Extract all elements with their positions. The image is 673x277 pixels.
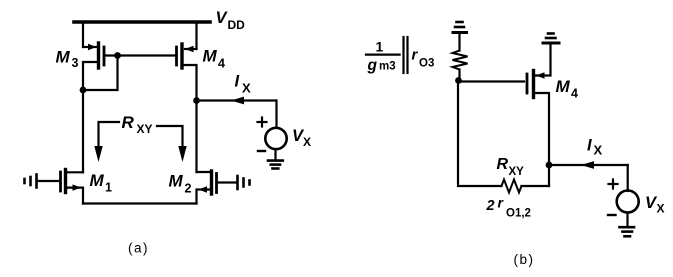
transistor M1 (61, 170, 82, 193)
wire VX top (a) (275, 101, 277, 129)
wire node X down to M2 drain (195, 101, 197, 173)
minus sign (b) (608, 214, 616, 216)
wire M4 drain down (b) (534, 93, 550, 186)
wire resistor to gate node (b) (458, 70, 460, 81)
node M3 drain junction (80, 87, 87, 94)
arrow RXY right (157, 126, 187, 162)
label M4 (203, 47, 226, 71)
resistor RXY (b) (502, 180, 522, 193)
svg-text:I: I (235, 73, 240, 91)
wire M3 gate to M4 gate (105, 54, 176, 56)
wire M4 drain (182, 65, 197, 101)
svg-text:XY: XY (137, 122, 153, 136)
wire M3 drain (83, 62, 99, 90)
svg-text:M: M (556, 77, 571, 96)
parallel bars (404, 37, 408, 73)
transistor M4 (177, 44, 194, 68)
wire M1 drain (66, 171, 84, 173)
wire tail rail (83, 202, 197, 204)
label 2rO1,2 (b) (486, 195, 531, 220)
svg-text:I: I (587, 136, 592, 154)
svg-text:X: X (242, 80, 251, 95)
wire M2 drain (197, 171, 212, 173)
label VDD (216, 9, 246, 32)
wire gate node down to RXY (b) (458, 81, 502, 187)
caption (b) (514, 252, 535, 267)
label IX (b) (587, 136, 603, 157)
svg-text:X: X (303, 135, 311, 149)
label IX (a) (235, 73, 252, 96)
svg-text:R: R (122, 113, 135, 132)
wire IX with arrow (a) (197, 97, 277, 105)
plus sign (b) (609, 180, 618, 189)
svg-text:X: X (594, 143, 603, 158)
ground at M2 gate (238, 176, 250, 189)
fraction bar (366, 53, 400, 55)
wire ground to resistor (b) (458, 34, 460, 51)
wire M4 source from VDD (195, 22, 197, 49)
transistor M2 (199, 171, 217, 194)
svg-text:X: X (657, 202, 665, 216)
label RXY (122, 113, 153, 136)
svg-text:2: 2 (185, 182, 192, 196)
ground under VX (a) (268, 149, 283, 169)
svg-text:2: 2 (486, 198, 495, 214)
inverted ground above M4 (b) (543, 34, 559, 44)
source VX (a) (265, 128, 286, 149)
label M4 (b) (556, 77, 579, 101)
source VX (b) (617, 191, 639, 213)
svg-text:DD: DD (228, 18, 246, 32)
svg-text:O3: O3 (419, 58, 434, 70)
node M3 gate-drain junction (114, 52, 121, 59)
wire diode connection of M3 (83, 56, 118, 91)
svg-text:M: M (56, 48, 71, 67)
ground at M1 gate (25, 175, 37, 188)
wire M1 source (66, 188, 84, 204)
svg-text:M: M (169, 172, 184, 191)
label 1/gm3 parallel rO3 (367, 39, 435, 75)
svg-text:4: 4 (218, 57, 225, 71)
node X (b) (546, 162, 553, 169)
label VX (b) (645, 194, 665, 216)
svg-text:(b): (b) (514, 252, 535, 267)
inverted ground above resistor (b) (453, 22, 467, 33)
svg-text:1: 1 (105, 181, 112, 195)
svg-text:(a): (a) (128, 241, 149, 256)
minus sign (a) (258, 150, 265, 152)
svg-text:1: 1 (376, 39, 384, 55)
VDD rail (74, 20, 210, 24)
wire M3 drain to M1 drain (82, 90, 84, 172)
label RXY (b) (497, 156, 525, 178)
transistor M3 (88, 43, 104, 68)
plus sign (a) (258, 118, 267, 127)
svg-text:3: 3 (72, 56, 79, 70)
wire M2 gate (218, 181, 237, 183)
svg-text:XY: XY (509, 166, 525, 178)
label M3 (56, 48, 79, 71)
label M1 (90, 171, 113, 195)
arrow RXY left (94, 122, 119, 162)
label VX (a) (292, 127, 311, 149)
wire IX with arrow (b) (549, 161, 628, 169)
wire gate node to M4 gate (b) (459, 80, 525, 82)
ground under VX (b) (620, 213, 635, 237)
wire VX top (b) (627, 165, 629, 191)
label M2 (169, 172, 192, 196)
svg-text:m3: m3 (379, 61, 396, 73)
svg-text:g: g (367, 57, 378, 74)
caption (a) (128, 241, 149, 256)
wire M4 source up (b) (534, 45, 551, 76)
transistor M4 (b) (527, 71, 545, 98)
svg-text:4: 4 (571, 87, 578, 101)
svg-text:M: M (90, 171, 105, 190)
resistor 1/gm3 parallel rO3 (b) (453, 51, 468, 70)
svg-text:M: M (203, 47, 218, 66)
node gate of M4 (b) (455, 77, 462, 84)
wire RXY right to node (b) (522, 185, 550, 187)
svg-text:O1,2: O1,2 (506, 208, 531, 220)
wire M2 source (197, 190, 212, 204)
node X output (193, 97, 200, 104)
wire M3 source from VDD (82, 22, 84, 47)
wire M1 gate (38, 180, 60, 182)
svg-text:R: R (497, 156, 509, 173)
